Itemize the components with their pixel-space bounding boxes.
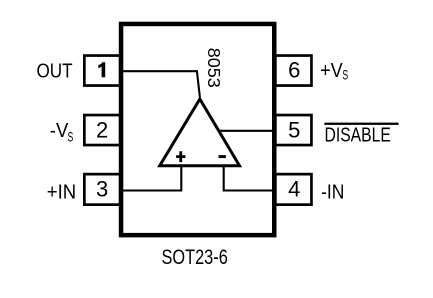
wire pin3 +IN to op-amp non-inverting input	[121, 164, 182, 191]
pin 2 box	[84, 115, 120, 145]
svg-text:8053: 8053	[204, 48, 224, 88]
svg-text:SOT23-6: SOT23-6	[162, 246, 228, 269]
pin 1 number	[98, 62, 105, 77]
wire op-amp right edge to pin5 DISABLE	[219, 130, 276, 132]
svg-text:S: S	[342, 67, 348, 82]
op-amp minus (inverting input) marking	[219, 155, 226, 158]
svg-text:S: S	[68, 130, 74, 145]
label DISABLE overline (pin 5)	[324, 123, 398, 125]
pin 6 box	[275, 56, 311, 86]
op-amp plus (non-inverting input) marking	[176, 151, 185, 162]
svg-text:+V: +V	[320, 60, 343, 82]
wire pin1 OUT to op-amp output apex	[121, 71, 200, 97]
svg-text:OUT: OUT	[37, 60, 73, 82]
svg-text:-IN: -IN	[321, 182, 344, 204]
svg-text:2: 2	[96, 118, 108, 143]
svg-text:4: 4	[288, 176, 300, 201]
IC body SOT23-6 package outline	[121, 24, 274, 235]
svg-text:6: 6	[288, 58, 300, 83]
wire pin4 -IN to op-amp inverting input	[224, 164, 276, 191]
pin 3 box	[84, 174, 120, 205]
svg-text:DISABLE: DISABLE	[325, 125, 391, 147]
svg-text:5: 5	[288, 118, 300, 143]
pin 4 box	[275, 174, 311, 205]
pin 5 box	[275, 115, 311, 145]
svg-text:-V: -V	[50, 120, 69, 142]
pin 1 box	[84, 56, 120, 86]
svg-text:+IN: +IN	[47, 182, 76, 204]
op-amp U1 triangle	[160, 99, 240, 166]
svg-text:3: 3	[96, 176, 108, 201]
